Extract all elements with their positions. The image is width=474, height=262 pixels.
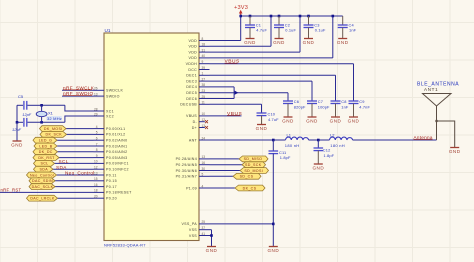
svg-text:P0.10/NFC2: P0.10/NFC2 (106, 168, 129, 172)
svg-text:VBUS: VBUS (227, 111, 243, 117)
svg-text:VDD: VDD (189, 56, 198, 60)
svg-text:LED_G: LED_G (39, 139, 53, 143)
svg-text:P0.30/AIN6: P0.30/AIN6 (176, 169, 197, 173)
svg-text:GND: GND (244, 40, 256, 45)
svg-text:VSS: VSS (189, 228, 197, 232)
svg-text:VDD: VDD (189, 39, 198, 43)
svg-text:P0.20: P0.20 (106, 197, 117, 201)
svg-text:SD_SCK: SD_SCK (245, 163, 262, 167)
svg-text:24: 24 (202, 136, 206, 140)
svg-text:GND: GND (312, 165, 324, 170)
svg-text:VSS_PA: VSS_PA (181, 222, 197, 226)
svg-text:4.7uF: 4.7uF (268, 117, 279, 122)
svg-text:20: 20 (94, 195, 98, 199)
svg-text:16: 16 (94, 183, 98, 187)
svg-text:SWDIO: SWDIO (106, 94, 120, 98)
svg-text:DK_MOSI: DK_MOSI (44, 127, 63, 131)
svg-text:9: 9 (96, 154, 98, 158)
svg-text:180 nH: 180 nH (285, 143, 300, 148)
svg-text:26: 26 (94, 87, 98, 91)
svg-text:P0.15: P0.15 (106, 179, 117, 183)
svg-text:DAC_LRCLK: DAC_LRCLK (30, 197, 55, 201)
svg-text:180 nH: 180 nH (330, 143, 345, 148)
svg-text:P0.29/AIN5: P0.29/AIN5 (176, 163, 197, 167)
svg-text:P0.31/AIN7: P0.31/AIN7 (176, 175, 197, 179)
svg-text:GND: GND (303, 40, 315, 45)
svg-text:C8: C8 (341, 99, 346, 104)
svg-text:4.7nF: 4.7nF (359, 105, 370, 110)
svg-text:GND: GND (256, 126, 268, 131)
svg-text:820pF: 820pF (294, 105, 306, 110)
svg-text:DAC_SCLK: DAC_SCLK (32, 185, 54, 189)
svg-text:30: 30 (202, 167, 206, 171)
svg-text:7: 7 (96, 142, 98, 146)
svg-text:GND: GND (330, 118, 342, 123)
svg-text:P0.03/AIN1: P0.03/AIN1 (106, 144, 127, 148)
svg-text:SD_CS: SD_CS (240, 175, 254, 179)
svg-text:P0.04/AIN2: P0.04/AIN2 (106, 150, 127, 154)
svg-text:C6: C6 (294, 99, 299, 104)
svg-text:DK_SCK: DK_SCK (46, 133, 63, 137)
svg-text:D+: D+ (192, 126, 197, 130)
svg-text:23: 23 (202, 89, 206, 93)
svg-text:LED_B: LED_B (39, 144, 52, 148)
svg-text:nRF_RST: nRF_RST (1, 187, 22, 192)
svg-text:C12: C12 (323, 148, 331, 153)
svg-text:GND: GND (267, 248, 279, 253)
svg-text:Neo_Control: Neo_Control (30, 173, 54, 177)
svg-text:VDD: VDD (189, 50, 198, 54)
svg-text:12pF: 12pF (22, 112, 31, 117)
svg-text:ANT1: ANT1 (424, 87, 438, 92)
svg-text:4.7uF: 4.7uF (256, 28, 267, 33)
svg-text:10: 10 (202, 112, 206, 116)
svg-text:GND: GND (273, 40, 285, 45)
svg-text:P0.17: P0.17 (106, 185, 117, 189)
svg-text:GND: GND (206, 248, 218, 253)
svg-text:DK_CS: DK_CS (243, 186, 257, 190)
svg-text:SCL: SCL (40, 162, 48, 166)
svg-text:12: 12 (94, 166, 98, 170)
svg-text:SD_MOSI: SD_MOSI (244, 169, 263, 173)
svg-text:VBUS: VBUS (186, 114, 197, 118)
svg-text:8: 8 (96, 148, 98, 152)
svg-text:C9: C9 (359, 99, 364, 104)
svg-text:VDD: VDD (189, 45, 198, 49)
svg-text:P0.00/XL1: P0.00/XL1 (106, 127, 125, 131)
svg-text:1nF: 1nF (341, 105, 349, 110)
svg-text:31: 31 (202, 48, 206, 52)
svg-text:13: 13 (94, 92, 98, 96)
svg-text:4: 4 (202, 184, 204, 188)
svg-text:C5: C5 (18, 94, 24, 99)
svg-text:DEC1: DEC1 (186, 74, 197, 78)
svg-text:DK_RST: DK_RST (38, 156, 55, 160)
svg-text:18: 18 (94, 189, 98, 193)
svg-text:DEC4: DEC4 (186, 85, 197, 89)
svg-text:1.8pF: 1.8pF (324, 153, 335, 158)
svg-text:P0.18/RESET: P0.18/RESET (106, 191, 132, 195)
svg-text:DECUSB: DECUSB (180, 103, 197, 107)
svg-text:Neo_Control: Neo_Control (65, 171, 95, 176)
svg-text:DCC: DCC (188, 68, 197, 72)
svg-text:16: 16 (202, 161, 206, 165)
svg-text:5: 5 (96, 131, 98, 135)
svg-text:C7: C7 (318, 99, 323, 104)
svg-text:11: 11 (202, 101, 206, 105)
svg-text:P0.02/AIN0: P0.02/AIN0 (106, 139, 127, 143)
svg-text:GND: GND (306, 118, 318, 123)
svg-text:27: 27 (202, 77, 206, 81)
svg-text:SDA: SDA (56, 165, 67, 170)
svg-text:DEC3: DEC3 (186, 79, 197, 83)
svg-text:100pF: 100pF (318, 105, 330, 110)
svg-text:DK_DC: DK_DC (39, 150, 53, 154)
svg-text:L2: L2 (330, 133, 335, 138)
svg-text:SDA: SDA (40, 168, 49, 172)
svg-text:15: 15 (94, 177, 98, 181)
svg-text:DAC_SDIN: DAC_SDIN (32, 179, 53, 183)
svg-text:P1.09: P1.09 (186, 186, 197, 190)
svg-text:+3V3: +3V3 (234, 5, 248, 11)
svg-text:38: 38 (202, 83, 206, 87)
svg-text:9: 9 (202, 60, 204, 64)
svg-text:1nF: 1nF (349, 28, 357, 33)
svg-text:0.1uF: 0.1uF (315, 28, 326, 33)
svg-text:1: 1 (202, 72, 204, 76)
svg-text:41: 41 (202, 232, 206, 236)
svg-text:8: 8 (202, 37, 204, 41)
svg-text:6: 6 (96, 137, 98, 141)
svg-text:40: 40 (202, 54, 206, 58)
svg-text:1.8pF: 1.8pF (280, 155, 291, 160)
svg-text:U1: U1 (105, 28, 111, 33)
svg-text:P0.01/XL2: P0.01/XL2 (106, 133, 125, 137)
svg-text:GND: GND (282, 118, 294, 123)
svg-text:10: 10 (94, 160, 98, 164)
svg-text:25: 25 (202, 95, 206, 99)
svg-text:SCL: SCL (59, 159, 69, 164)
svg-text:39: 39 (202, 66, 206, 70)
svg-text:GND: GND (11, 142, 23, 147)
svg-text:4: 4 (96, 125, 98, 129)
svg-text:L1: L1 (287, 133, 292, 138)
svg-text:XC1: XC1 (106, 109, 114, 113)
svg-text:25: 25 (202, 220, 206, 224)
svg-text:D-: D- (193, 120, 198, 124)
svg-text:NRF52833-QDAA-R7: NRF52833-QDAA-R7 (104, 243, 146, 248)
svg-text:GND: GND (337, 40, 349, 45)
svg-text:5: 5 (202, 173, 204, 177)
svg-text:0.1uF: 0.1uF (285, 28, 296, 33)
svg-text:13: 13 (202, 155, 206, 159)
svg-text:18: 18 (202, 43, 206, 47)
svg-text:DEC5: DEC5 (186, 91, 197, 95)
svg-text:32 MHz: 32 MHz (47, 116, 62, 121)
svg-text:GND: GND (348, 118, 360, 123)
svg-text:13: 13 (202, 124, 206, 128)
svg-text:VBUS: VBUS (225, 59, 241, 65)
svg-text:P0.05/AIN3: P0.05/AIN3 (106, 156, 127, 160)
svg-text:GND: GND (449, 149, 461, 154)
svg-text:SD_MISO: SD_MISO (244, 157, 263, 161)
svg-text:ANT: ANT (189, 138, 198, 142)
svg-text:VDDH: VDDH (186, 62, 197, 66)
svg-text:XC2: XC2 (106, 114, 114, 118)
svg-text:DEC6: DEC6 (186, 97, 197, 101)
svg-text:37: 37 (202, 226, 206, 230)
svg-text:Antenna: Antenna (414, 135, 433, 140)
svg-text:P0.11: P0.11 (106, 173, 117, 177)
svg-text:P0.28/AIN4: P0.28/AIN4 (176, 157, 197, 161)
svg-text:VSS: VSS (189, 234, 197, 238)
svg-text:P0.09/NFC1: P0.09/NFC1 (106, 162, 129, 166)
svg-text:12: 12 (202, 118, 206, 122)
svg-text:SWDCLK: SWDCLK (106, 89, 123, 93)
